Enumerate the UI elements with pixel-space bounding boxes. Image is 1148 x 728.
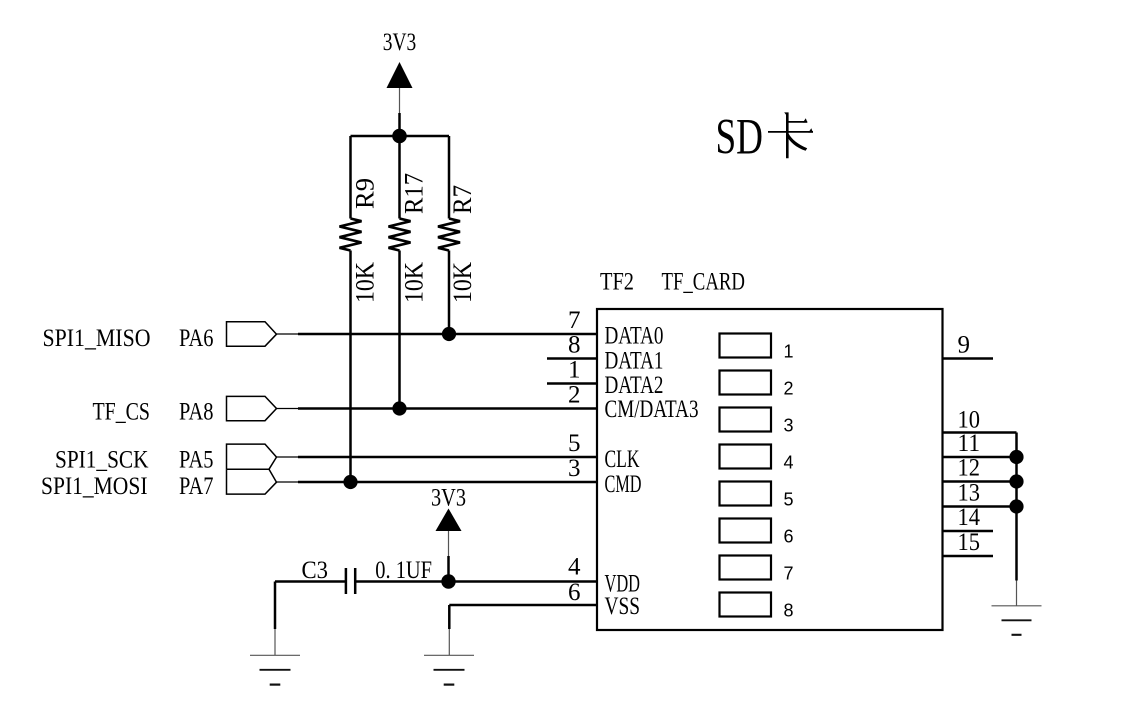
capacitor C3 <box>346 568 355 594</box>
svg-text:CM/DATA3: CM/DATA3 <box>605 396 699 423</box>
node: 3V3 bus junction <box>392 129 407 144</box>
pin 4 VDD <box>568 554 640 598</box>
pin 7 DATA0 <box>568 307 664 350</box>
svg-text:5: 5 <box>784 490 794 510</box>
svg-text:SD: SD <box>716 110 764 166</box>
svg-text:10K: 10K <box>400 262 429 303</box>
pin 2 CM/DATA3 <box>568 382 699 424</box>
wire: SPI1_SCK net <box>277 456 598 458</box>
svg-text:C3: C3 <box>302 557 329 584</box>
wire: 3V3 bus <box>351 135 450 138</box>
IC U-TF2 box <box>597 309 943 630</box>
title SD card (SD卡) <box>716 110 814 166</box>
svg-text:12: 12 <box>958 455 981 482</box>
svg-text:5: 5 <box>568 430 581 457</box>
svg-text:8: 8 <box>784 601 794 621</box>
wire: C3 left lead to ground <box>275 582 346 656</box>
svg-text:1: 1 <box>784 342 794 362</box>
ground symbol center <box>424 655 474 684</box>
svg-text:13: 13 <box>958 480 981 507</box>
node: junction pin 13 / gnd <box>1009 499 1023 513</box>
SD card contact 2 <box>720 371 794 399</box>
svg-text:1: 1 <box>568 357 581 384</box>
svg-text:11: 11 <box>958 430 981 457</box>
svg-text:PA8: PA8 <box>179 398 214 425</box>
wire: R17 bottom lead <box>398 251 401 409</box>
wire: R17 top lead <box>398 136 401 219</box>
svg-text:3V3: 3V3 <box>431 485 466 512</box>
svg-text:10K: 10K <box>351 262 380 303</box>
svg-text:3V3: 3V3 <box>383 29 417 56</box>
svg-text:CLK: CLK <box>605 446 640 473</box>
svg-text:R9: R9 <box>351 178 380 209</box>
wire: right ground bus <box>1015 433 1018 606</box>
pin 9 <box>943 332 994 359</box>
node: junction pin 12 / gnd <box>1009 474 1023 488</box>
svg-text:8: 8 <box>568 332 581 359</box>
svg-text:2: 2 <box>568 382 581 409</box>
SD card contact 6 <box>720 519 794 547</box>
svg-text:6: 6 <box>568 579 581 606</box>
svg-text:6: 6 <box>784 527 794 547</box>
SD card contact 5 <box>720 482 794 510</box>
node: junction R9 / SPI1_MOSI <box>343 475 357 489</box>
svg-text:TF_CS: TF_CS <box>93 398 151 425</box>
power 3V3 bottom arrow symbol <box>436 509 462 582</box>
wire: SPI1_MISO net <box>277 333 598 335</box>
SD card contact 1 <box>720 334 794 362</box>
port PA5 <box>227 444 277 469</box>
svg-text:14: 14 <box>958 504 981 531</box>
SD card contact 8 <box>720 593 794 621</box>
svg-text:R17: R17 <box>400 173 429 214</box>
SD card contact 4 <box>720 445 794 473</box>
svg-text:PA6: PA6 <box>179 325 214 352</box>
wire: TF_CS net <box>277 408 598 410</box>
svg-text:SPI1_SCK: SPI1_SCK <box>55 447 149 474</box>
svg-text:3: 3 <box>568 455 581 482</box>
svg-text:CMD: CMD <box>605 471 642 498</box>
SD card contact 3 <box>720 408 794 436</box>
svg-text:9: 9 <box>958 332 971 359</box>
pin 8 DATA1 <box>547 332 664 375</box>
pin 6 VSS <box>568 579 640 620</box>
SD card contact 7 <box>720 556 794 584</box>
wire: VSS net to ground <box>449 605 597 655</box>
svg-text:PA5: PA5 <box>179 447 214 474</box>
pin 13 <box>943 480 1017 507</box>
svg-text:TF2: TF2 <box>600 269 634 296</box>
wire: SPI1_MOSI net <box>277 481 598 483</box>
svg-text:PA7: PA7 <box>179 473 214 500</box>
pin 12 <box>943 455 1017 482</box>
wire: R9 bottom lead <box>349 251 352 483</box>
pin 5 CLK <box>568 430 640 473</box>
svg-text:VSS: VSS <box>605 593 641 620</box>
svg-text:10K: 10K <box>448 262 477 303</box>
resistor R7 <box>438 219 460 251</box>
port PA6 <box>227 322 277 346</box>
svg-text:SPI1_MISO: SPI1_MISO <box>43 325 151 352</box>
node: junction 3V3 / VDD <box>441 574 455 588</box>
svg-text:DATA0: DATA0 <box>605 323 664 350</box>
node: junction R7 / SPI1_MISO <box>442 327 456 341</box>
svg-text:DATA2: DATA2 <box>605 372 664 399</box>
svg-text:7: 7 <box>784 564 794 584</box>
node: junction pin 11 / gnd <box>1009 450 1023 464</box>
pin 11 <box>943 430 1017 457</box>
svg-text:4: 4 <box>568 554 581 581</box>
pin 3 CMD <box>568 455 642 498</box>
svg-text:7: 7 <box>568 307 581 334</box>
pin 15 <box>943 529 994 556</box>
ground symbol left <box>250 655 300 684</box>
svg-text:4: 4 <box>784 453 794 473</box>
svg-text:2: 2 <box>784 379 794 399</box>
port PA8 <box>227 396 277 420</box>
svg-text:R7: R7 <box>448 185 477 214</box>
resistor R9 <box>340 219 362 251</box>
wire: R7 bottom lead <box>448 251 451 335</box>
pin 10 <box>943 407 1017 434</box>
ground symbol right <box>992 606 1042 635</box>
power 3V3 top arrow symbol <box>387 62 413 136</box>
node: junction R17 / TF_CS <box>392 401 406 415</box>
svg-text:0. 1UF: 0. 1UF <box>375 557 432 584</box>
pin 14 <box>943 504 994 531</box>
resistor R17 <box>389 219 411 251</box>
svg-text:DATA1: DATA1 <box>605 348 664 375</box>
wire: VDD net <box>355 580 597 583</box>
port PA7 <box>227 469 277 494</box>
svg-text:TF_CARD: TF_CARD <box>662 269 746 296</box>
svg-text:15: 15 <box>958 529 981 556</box>
wire: R7 top lead <box>448 136 451 219</box>
pin 1 DATA2 <box>547 357 664 399</box>
wire: R9 top lead <box>349 136 352 219</box>
svg-text:3: 3 <box>784 416 794 436</box>
svg-text:SPI1_MOSI: SPI1_MOSI <box>41 473 148 500</box>
